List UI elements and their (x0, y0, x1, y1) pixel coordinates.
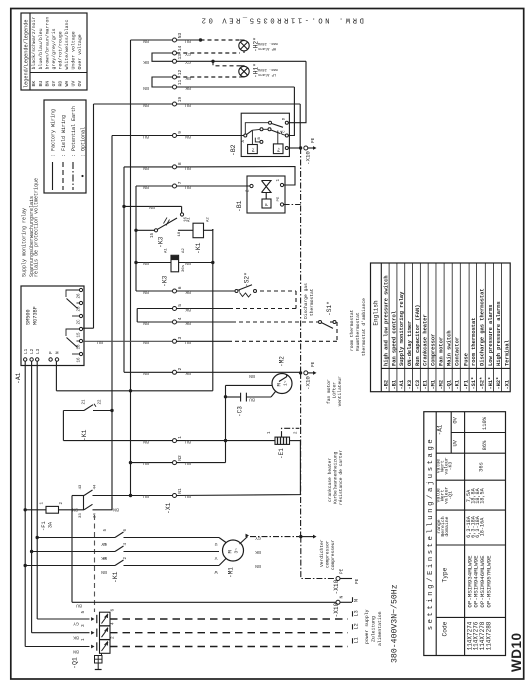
svg-text:P>: P> (277, 147, 282, 152)
svg-text:-K3: -K3 (407, 380, 413, 390)
svg-text:DRW. NO.-11RR0355_REV 02: DRW. NO.-11RR0355_REV 02 (199, 16, 364, 24)
svg-text:L2: L2 (30, 348, 35, 354)
svg-text:GY: GY (51, 81, 57, 87)
svg-text:grey/grey/gris: grey/grey/gris (51, 28, 57, 69)
svg-text:-K3: -K3 (158, 236, 165, 248)
svg-text:BN: BN (143, 184, 149, 190)
svg-text:Code: Code (442, 621, 449, 636)
svg-text:11: 11 (177, 79, 183, 85)
svg-text:BK: BK (185, 370, 191, 376)
svg-text:UV: UV (71, 81, 77, 87)
svg-text:WH: WH (64, 81, 70, 87)
svg-text:-H1*: -H1* (488, 377, 494, 390)
svg-text:L2: L2 (354, 623, 360, 629)
svg-text:BN: BN (113, 507, 119, 513)
svg-text:PE: PE (311, 361, 316, 367)
svg-text:15: 15 (78, 332, 82, 338)
svg-text:: Optional: : Optional (80, 127, 86, 157)
svg-text:-A1: -A1 (437, 424, 444, 435)
svg-text:BU: BU (185, 102, 191, 108)
svg-text:9: 9 (177, 131, 183, 134)
svg-text:Type: Type (442, 567, 449, 582)
svg-text:Supply monitoring relay: Supply monitoring relay (399, 291, 405, 366)
svg-text:Low pressure alarms: Low pressure alarms (488, 305, 494, 366)
svg-text:BN: BN (185, 260, 191, 266)
svg-text:-K1: -K1 (81, 429, 88, 441)
svg-text:Zuleitung: Zuleitung (371, 616, 377, 642)
svg-text:-S2*: -S2* (244, 272, 251, 287)
svg-text:RD: RD (57, 81, 63, 87)
svg-text:Lüfter: Lüfter (332, 382, 338, 399)
svg-text:Discharge gas thermostat: Discharge gas thermostat (480, 288, 486, 366)
svg-text:: Potential Earth: : Potential Earth (71, 106, 77, 157)
svg-text:4: 4 (177, 317, 183, 320)
svg-text:-Q1: -Q1 (447, 380, 453, 390)
svg-text:43: 43 (79, 484, 83, 489)
svg-text:28: 28 (78, 306, 82, 312)
svg-text:BN: BN (185, 134, 191, 140)
svg-text:BN: BN (101, 569, 107, 575)
svg-text:thermostat: thermostat (309, 288, 315, 316)
svg-text:-Q1: -Q1 (448, 491, 454, 500)
svg-text:BU: BU (185, 439, 191, 445)
svg-text:18,5A: 18,5A (479, 487, 485, 503)
svg-text:-F1: -F1 (41, 521, 47, 531)
svg-text:N2: N2 (177, 455, 183, 461)
svg-text:thermostat d'ambiance: thermostat d'ambiance (361, 298, 367, 356)
svg-text:21: 21 (83, 399, 87, 405)
svg-text:Fan speed control: Fan speed control (391, 310, 397, 366)
svg-text:BU: BU (185, 493, 191, 499)
svg-text:Raumthermostat: Raumthermostat (355, 312, 361, 351)
svg-text:BU: BU (38, 81, 44, 87)
svg-text:room thermostat: room thermostat (471, 317, 477, 366)
svg-text:alimentation: alimentation (377, 611, 383, 646)
svg-text:A1: A1 (165, 248, 169, 253)
svg-text:compressor: compressor (326, 540, 331, 568)
svg-text:P: P (49, 351, 54, 354)
svg-text:-C3: -C3 (237, 406, 244, 417)
svg-text:BU: BU (76, 603, 82, 609)
svg-text:-K1: -K1 (455, 380, 461, 390)
svg-text:WD10: WD10 (509, 632, 524, 672)
svg-text:8: 8 (177, 162, 183, 165)
svg-text:BU: BU (143, 493, 149, 499)
svg-text:LP Alarm: LP Alarm (258, 72, 276, 77)
svg-text:5: 5 (177, 304, 183, 307)
svg-text:BK: BK (73, 635, 79, 641)
svg-text:2C: 2C (78, 319, 82, 325)
svg-text:-S1*: -S1* (326, 301, 333, 316)
svg-text:N: N (56, 351, 61, 354)
svg-text:Compressor: Compressor (430, 334, 436, 366)
svg-text:MG73BF: MG73BF (33, 306, 39, 325)
svg-text:L1: L1 (24, 348, 29, 354)
svg-text:-H2*: -H2* (496, 377, 502, 390)
svg-text:-B2: -B2 (230, 144, 237, 156)
svg-text:3~: 3~ (234, 548, 240, 554)
svg-text:A1: A1 (188, 217, 192, 222)
svg-text:-M2: -M2 (439, 380, 445, 390)
svg-text:BU: BU (143, 460, 149, 466)
svg-text:BN: BN (143, 320, 149, 326)
svg-text:BK: BK (185, 289, 191, 295)
svg-text:HP Alarm: HP Alarm (258, 46, 276, 51)
svg-text:13: 13 (177, 54, 183, 60)
svg-text:2: 2 (111, 636, 116, 639)
svg-text:BN: BN (143, 289, 149, 295)
svg-text:BN: BN (73, 648, 79, 654)
svg-text:16: 16 (78, 357, 82, 363)
svg-text:BN: BN (143, 439, 149, 445)
svg-text:max. 28VA: max. 28VA (257, 67, 278, 71)
svg-text:BN: BN (255, 563, 261, 569)
svg-text:PE: PE (355, 578, 360, 584)
svg-text:-Q1: -Q1 (72, 657, 79, 669)
svg-text:domaine: domaine (444, 516, 450, 536)
svg-text:-C3: -C3 (415, 380, 421, 390)
svg-text:-X10: -X10 (305, 151, 312, 165)
svg-text:N: N (354, 599, 360, 602)
svg-text:7: 7 (177, 181, 183, 184)
svg-text:relais de protection voltmetri: relais de protection voltmetrique (34, 178, 40, 277)
svg-text:BN: BN (143, 165, 149, 171)
svg-text:18: 18 (78, 344, 82, 350)
svg-text:BU: BU (185, 184, 191, 190)
svg-text:36s: 36s (479, 462, 485, 472)
svg-text:GY: GY (101, 541, 107, 547)
svg-text:BU: BU (185, 165, 191, 171)
svg-text:Under voltage: Under voltage (71, 31, 77, 69)
svg-text:BU: BU (97, 339, 103, 345)
svg-text:P: P (265, 203, 270, 206)
svg-text:BN: BN (143, 85, 149, 91)
svg-text:Run capacitor (FAN): Run capacitor (FAN) (415, 305, 421, 366)
svg-text:A2: A2 (182, 248, 186, 253)
svg-text:Fuse: Fuse (464, 353, 470, 366)
svg-text:-M1: -M1 (430, 380, 436, 390)
svg-text:BN: BN (143, 102, 149, 108)
svg-text:N: N (339, 596, 345, 599)
svg-text:19: 19 (177, 96, 183, 102)
svg-text:380-400V3N~/50Hz: 380-400V3N~/50Hz (390, 584, 400, 663)
svg-text:BK: BK (185, 307, 191, 313)
svg-text:110%: 110% (482, 416, 488, 430)
svg-text:-K3: -K3 (162, 275, 169, 287)
svg-text:OV: OV (453, 416, 459, 423)
svg-text:-X10: -X10 (333, 602, 340, 617)
svg-text:-K1: -K1 (112, 571, 119, 583)
svg-text:blue/blau/bleu: blue/blau/bleu (38, 28, 44, 69)
svg-text:44: 44 (94, 484, 98, 489)
svg-text:PE: PE (340, 568, 345, 574)
svg-text:-K1: -K1 (195, 242, 202, 254)
svg-text:white/weiss/blanc: white/weiss/blanc (64, 20, 70, 70)
svg-text:-X10: -X10 (333, 579, 340, 594)
svg-text:5: 5 (81, 611, 86, 614)
svg-text:BN: BN (143, 260, 149, 266)
svg-text:BN: BN (72, 507, 78, 513)
svg-text:High pressure alarms: High pressure alarms (496, 301, 502, 366)
svg-text:-F1: -F1 (464, 380, 470, 390)
svg-text:M: M (227, 550, 234, 553)
svg-text:-K3: -K3 (448, 462, 454, 471)
svg-text:Discharge gas: Discharge gas (303, 283, 309, 319)
svg-text:English: English (373, 300, 380, 326)
svg-text:PE: PE (311, 137, 316, 143)
svg-text:BK: BK (143, 59, 149, 65)
svg-text:BN: BN (44, 81, 50, 87)
svg-text:86%: 86% (482, 440, 488, 450)
svg-text:L1: L1 (354, 637, 360, 643)
svg-text:room thermostat: room thermostat (349, 309, 355, 351)
svg-text:legend/Legende/legende: legend/Legende/legende (24, 20, 30, 89)
svg-text:14: 14 (177, 45, 183, 51)
svg-text:UV: UV (453, 439, 459, 446)
svg-text:-S2*: -S2* (480, 377, 486, 390)
svg-text:Fan motor: Fan motor (439, 337, 445, 366)
svg-text:setting/Einstellung/ajustage: setting/Einstellung/ajustage (427, 437, 435, 631)
svg-text:PE: PE (277, 196, 281, 201)
svg-text:-B1: -B1 (391, 380, 397, 390)
svg-text:-E1: -E1 (278, 448, 285, 459)
svg-text:BU: BU (249, 397, 255, 403)
svg-text:L3: L3 (36, 348, 41, 354)
svg-text:-X1: -X1 (505, 380, 511, 390)
svg-text:-E1: -E1 (423, 380, 429, 390)
svg-text:BK: BK (101, 555, 107, 561)
svg-text:GY: GY (185, 59, 191, 65)
svg-text:SM500: SM500 (26, 309, 32, 325)
svg-text:A2: A2 (207, 217, 211, 222)
svg-text:6: 6 (111, 609, 116, 612)
svg-text:-A1: -A1 (15, 372, 22, 384)
svg-text:15: 15 (151, 232, 155, 238)
svg-text:12: 12 (177, 69, 183, 75)
svg-text:22: 22 (99, 399, 103, 405)
svg-text:-M2: -M2 (279, 356, 286, 367)
svg-text:Terminal: Terminal (505, 339, 511, 366)
svg-text:GY: GY (185, 51, 191, 57)
svg-text:Over voltage: Over voltage (77, 34, 83, 69)
svg-text:26: 26 (78, 293, 82, 299)
svg-text:résistance de carter: résistance de carter (338, 450, 344, 505)
svg-text:-B1: -B1 (236, 200, 243, 212)
svg-text:power supply: power supply (364, 609, 370, 644)
svg-text:BN: BN (143, 339, 149, 345)
svg-text:BN: BN (143, 38, 149, 44)
svg-text:fan motor: fan motor (326, 379, 332, 404)
svg-text:2: 2 (177, 368, 183, 371)
svg-text:1: 1 (81, 638, 86, 641)
svg-text:brown/braun/marron: brown/braun/marron (44, 17, 50, 70)
svg-text:-A1: -A1 (399, 380, 405, 390)
svg-text:1~: 1~ (283, 380, 289, 386)
svg-text:Verdichter: Verdichter (319, 539, 325, 567)
svg-text:3A: 3A (48, 522, 54, 528)
svg-text:high and low pressure switch: high and low pressure switch (384, 275, 390, 366)
svg-text:U: U (214, 541, 217, 547)
svg-text:33: 33 (79, 513, 83, 518)
svg-text:114X7288: 114X7288 (485, 621, 492, 650)
svg-text:BU: BU (185, 339, 191, 345)
svg-text:BK: BK (185, 75, 191, 81)
svg-text:BU: BU (143, 134, 149, 140)
svg-text:BN: BN (249, 373, 255, 379)
svg-text:6: 6 (177, 286, 183, 289)
svg-text:max. 28VA: max. 28VA (257, 41, 278, 45)
svg-text:M: M (276, 383, 283, 386)
svg-text:BU: BU (185, 38, 191, 44)
svg-text:crankcase heater: crankcase heater (327, 458, 333, 502)
svg-text:compresseur: compresseur (331, 539, 336, 570)
svg-text:black/schwarz/noir: black/schwarz/noir (31, 17, 37, 70)
svg-text:3: 3 (177, 337, 183, 340)
svg-text:BU: BU (185, 460, 191, 466)
svg-text:4: 4 (111, 622, 116, 625)
svg-text:L3: L3 (354, 610, 360, 616)
svg-text:18-16A: 18-16A (479, 517, 485, 537)
svg-text:red/rot/rouge: red/rot/rouge (57, 31, 63, 69)
svg-text:Kurbelwannenheizung: Kurbelwannenheizung (333, 451, 339, 504)
svg-text:ON-delay timer: ON-delay timer (407, 321, 413, 366)
svg-text:: Factory Wiring: : Factory Wiring (50, 109, 56, 157)
svg-text:-B2: -B2 (384, 380, 390, 390)
svg-text:3: 3 (81, 624, 86, 627)
svg-text:W: W (214, 569, 217, 575)
svg-text:ventilateur: ventilateur (337, 376, 343, 407)
svg-text:Supply monitoring relay: Supply monitoring relay (22, 208, 28, 277)
svg-text:N1: N1 (177, 488, 183, 494)
svg-text:Crankcase heater: Crankcase heater (423, 314, 429, 366)
svg-text:BK: BK (255, 549, 261, 555)
svg-text:-M1: -M1 (228, 567, 235, 578)
svg-text:: Field Wiring: : Field Wiring (61, 115, 67, 157)
svg-text:-X10: -X10 (305, 376, 312, 390)
svg-text:BN: BN (143, 370, 149, 376)
svg-text:OP-MSIM957MLW9E: OP-MSIM957MLW9E (485, 555, 492, 608)
svg-text:BK: BK (31, 81, 37, 87)
svg-text:OV: OV (77, 81, 83, 87)
svg-text:Main switch: Main switch (447, 330, 453, 366)
svg-text:BK: BK (185, 320, 191, 326)
svg-text:18: 18 (178, 231, 182, 236)
svg-text:V: V (214, 555, 217, 561)
svg-text:Contactor: Contactor (455, 337, 461, 366)
svg-text:GY: GY (255, 535, 261, 541)
svg-text:BN: BN (149, 204, 155, 210)
svg-text:1: 1 (177, 436, 183, 439)
svg-text:P<: P< (251, 147, 256, 152)
svg-text:-S1*: -S1* (471, 377, 477, 390)
svg-text:GY: GY (73, 621, 79, 627)
svg-text:N3: N3 (177, 32, 183, 38)
svg-text:BK: BK (185, 85, 191, 91)
svg-text:-X1: -X1 (165, 502, 172, 514)
